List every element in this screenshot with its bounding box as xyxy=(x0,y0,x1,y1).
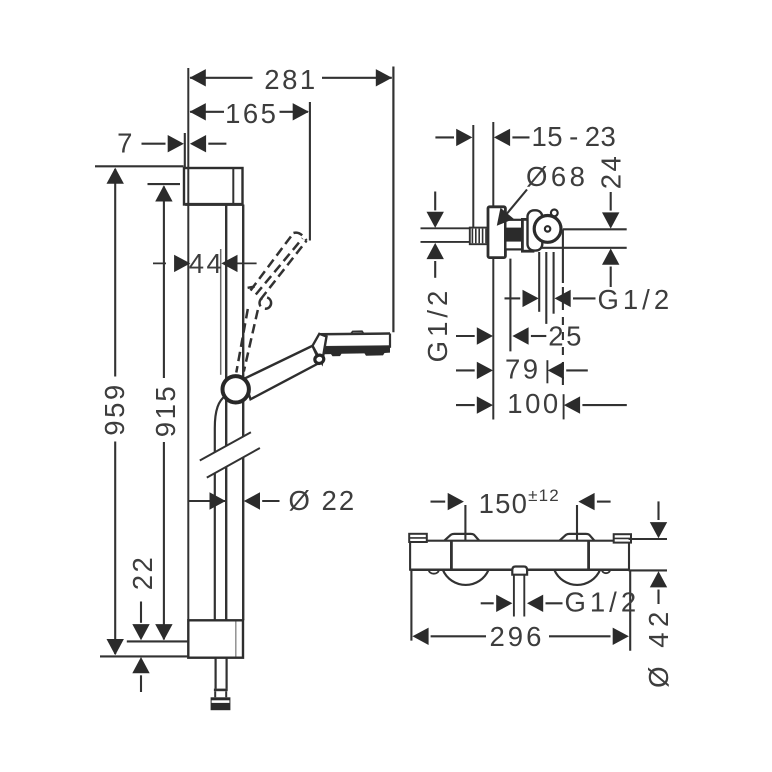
svg-text:Ø 22: Ø 22 xyxy=(289,485,357,516)
svg-text:Ø68: Ø68 xyxy=(526,161,588,192)
svg-text:7: 7 xyxy=(117,127,135,158)
svg-text:G1/2: G1/2 xyxy=(598,284,674,315)
svg-text:79: 79 xyxy=(505,354,541,385)
svg-text:165: 165 xyxy=(225,98,278,129)
svg-text:296: 296 xyxy=(490,621,545,652)
svg-text:281: 281 xyxy=(264,64,317,95)
svg-text:44: 44 xyxy=(189,248,225,279)
svg-text:915: 915 xyxy=(150,384,181,437)
svg-text:G1/2: G1/2 xyxy=(565,587,641,618)
svg-text:24: 24 xyxy=(595,154,626,190)
svg-text:25: 25 xyxy=(548,321,584,352)
svg-text:G1/2: G1/2 xyxy=(422,287,453,363)
svg-text:100: 100 xyxy=(507,388,560,419)
svg-text:15 - 23: 15 - 23 xyxy=(532,121,617,152)
svg-text:Ø 42: Ø 42 xyxy=(643,606,674,688)
svg-text:22: 22 xyxy=(127,555,158,591)
svg-text:959: 959 xyxy=(99,382,130,435)
